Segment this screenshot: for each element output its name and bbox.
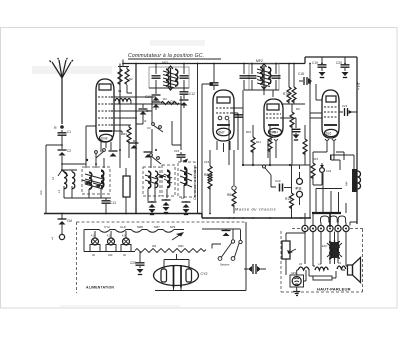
- svg-text:R8: R8: [227, 193, 231, 197]
- svg-text:C12: C12: [189, 92, 195, 96]
- svg-text:C3: C3: [147, 126, 151, 130]
- svg-text:R1: R1: [118, 89, 122, 93]
- svg-text:CY2: CY2: [201, 272, 208, 276]
- svg-text:CY2: CY2: [104, 225, 110, 229]
- svg-text:Commande anti-fading: Commande anti-fading: [193, 166, 197, 200]
- svg-text:MF2: MF2: [256, 59, 263, 63]
- svg-text:R7: R7: [287, 92, 291, 96]
- svg-text:R3: R3: [123, 132, 127, 136]
- svg-text:R5: R5: [204, 173, 208, 177]
- svg-text:6M7: 6M7: [154, 225, 160, 229]
- svg-text:AZ1: AZ1: [291, 271, 297, 275]
- svg-text:C22: C22: [275, 179, 281, 183]
- svg-text:R12: R12: [273, 130, 279, 134]
- svg-text:400: 400: [108, 253, 113, 257]
- svg-text:CL8: CL8: [120, 225, 126, 229]
- svg-text:L1: L1: [57, 189, 61, 193]
- svg-text:R11: R11: [256, 140, 261, 144]
- svg-text:C1: C1: [67, 130, 71, 134]
- svg-text:6m8: 6m8: [101, 137, 108, 141]
- svg-text:R2: R2: [129, 77, 133, 81]
- svg-text:L6: L6: [338, 261, 342, 265]
- svg-text:HAUT-PARLEUR: HAUT-PARLEUR: [317, 287, 351, 292]
- svg-text:6M8: 6M8: [137, 225, 143, 229]
- svg-text:C15: C15: [174, 149, 180, 153]
- svg-text:6L6: 6L6: [326, 132, 332, 136]
- svg-text:P.U.: P.U.: [296, 187, 303, 191]
- svg-text:L2: L2: [51, 176, 55, 180]
- svg-text:C16: C16: [204, 160, 210, 164]
- svg-text:C7: C7: [146, 109, 150, 113]
- svg-text:C19: C19: [312, 61, 318, 65]
- svg-text:C20: C20: [336, 61, 342, 65]
- svg-text:ALIMENTATION: ALIMENTATION: [86, 286, 114, 290]
- svg-text:CM: CM: [67, 219, 72, 223]
- svg-text:+ HT: + HT: [357, 81, 361, 90]
- svg-text:6M7: 6M7: [219, 131, 225, 135]
- svg-text:C25: C25: [130, 261, 136, 265]
- svg-text:Ant: Ant: [39, 190, 43, 195]
- svg-text:4500: 4500: [178, 245, 184, 248]
- svg-text:C21: C21: [342, 104, 348, 108]
- svg-text:R10: R10: [246, 130, 252, 134]
- svg-text:R4: R4: [163, 97, 167, 101]
- svg-text:Secteur: Secteur: [220, 263, 229, 267]
- svg-text:R: R: [54, 126, 57, 130]
- svg-text:6P9: 6P9: [170, 225, 176, 229]
- svg-text:C2: C2: [67, 149, 71, 153]
- svg-text:Commutateur à la position GC.: Commutateur à la position GC.: [128, 53, 204, 59]
- svg-text:Masse du chassis: Masse du chassis: [235, 208, 276, 212]
- svg-text:R9: R9: [296, 107, 300, 111]
- svg-text:L3: L3: [181, 196, 185, 200]
- svg-text:C10: C10: [145, 95, 151, 99]
- svg-text:R15: R15: [313, 157, 319, 161]
- svg-text:C24: C24: [326, 169, 332, 173]
- svg-text:EXC: EXC: [322, 244, 327, 248]
- svg-text:C13: C13: [110, 201, 116, 205]
- svg-text:R13: R13: [285, 197, 291, 201]
- svg-text:C18: C18: [298, 72, 304, 76]
- svg-text:L5: L5: [299, 262, 303, 266]
- svg-text:450: 450: [152, 245, 157, 248]
